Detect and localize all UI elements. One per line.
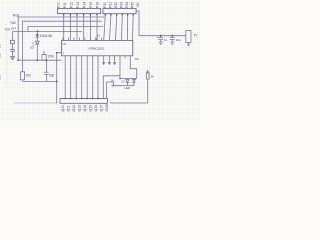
- svg-text:P34: P34: [125, 2, 129, 8]
- svg-text:RxD: RxD: [13, 14, 20, 18]
- svg-text:1u: 1u: [164, 38, 168, 42]
- svg-text:P35: P35: [130, 2, 134, 8]
- svg-text:D3: D3: [135, 57, 139, 61]
- svg-text:5V: 5V: [121, 80, 124, 84]
- svg-text:LED: LED: [124, 86, 131, 90]
- svg-text:P16: P16: [96, 2, 100, 8]
- svg-text:1N4148: 1N4148: [40, 34, 52, 38]
- svg-text:P33: P33: [119, 2, 123, 8]
- svg-text:P14: P14: [83, 2, 87, 8]
- svg-text:P10: P10: [57, 2, 61, 8]
- svg-text:P11: P11: [63, 2, 67, 8]
- svg-text:GND: GND: [105, 103, 109, 111]
- svg-text:10u: 10u: [25, 74, 31, 78]
- svg-text:10u: 10u: [176, 38, 181, 42]
- svg-text:P12: P12: [70, 2, 74, 8]
- svg-text:X1: X1: [97, 33, 101, 37]
- svg-text:+: +: [157, 36, 159, 40]
- svg-text:Q12: Q12: [72, 105, 76, 112]
- svg-text:P30: P30: [103, 2, 107, 8]
- svg-text:Q17: Q17: [100, 105, 104, 112]
- svg-text:VC: VC: [136, 2, 140, 7]
- svg-text:Q14: Q14: [83, 105, 87, 112]
- svg-text:12M: 12M: [48, 55, 55, 59]
- svg-text:D2: D2: [30, 45, 34, 49]
- svg-text:P15: P15: [89, 2, 93, 8]
- svg-text:P32: P32: [114, 2, 118, 8]
- svg-text:4x: 4x: [111, 83, 115, 87]
- svg-text:Q11: Q11: [67, 105, 71, 111]
- svg-text:1k: 1k: [111, 78, 115, 82]
- svg-text:R2: R2: [146, 71, 150, 75]
- svg-text:AT89C2051: AT89C2051: [89, 47, 105, 51]
- svg-text:30p: 30p: [49, 74, 55, 78]
- svg-text:P32: P32: [5, 28, 11, 32]
- svg-text:U1: U1: [63, 42, 67, 46]
- svg-text:INT: INT: [11, 27, 16, 31]
- svg-text:Q16: Q16: [94, 105, 98, 112]
- svg-text:Q10: Q10: [61, 105, 65, 112]
- svg-text:TxD: TxD: [10, 21, 17, 25]
- svg-text:P31: P31: [108, 2, 112, 8]
- svg-text:P13: P13: [76, 2, 80, 8]
- svg-text:2k: 2k: [151, 75, 155, 79]
- svg-text:Q15: Q15: [89, 105, 93, 112]
- svg-text:Q13: Q13: [78, 105, 82, 112]
